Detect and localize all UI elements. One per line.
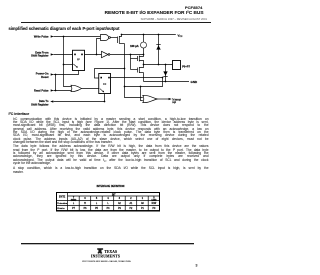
arrow power-on reset bbox=[51, 73, 54, 75]
svg-text:5: 5 bbox=[96, 198, 98, 200]
junction dot FF1 clock bbox=[63, 64, 65, 66]
wire INT gate lower input bbox=[141, 87, 143, 101]
svg-text:P3: P3 bbox=[118, 208, 122, 210]
wire NMOS2 gate stub bbox=[131, 69, 138, 71]
gate U4 OR1 body bbox=[71, 85, 82, 92]
svg-text:(LSB): (LSB) bbox=[151, 199, 156, 201]
wire data from shift register bbox=[54, 54, 73, 56]
diode D2 cathode bar bbox=[163, 75, 167, 77]
gate U2 NAND body bbox=[101, 35, 109, 41]
wire read pulse bbox=[54, 90, 72, 92]
junction dot write branch bbox=[63, 36, 65, 38]
junction dot FF2 Q bend bbox=[162, 77, 164, 79]
wire POR branch down to read line bbox=[55, 75, 57, 91]
junction dot VCC PMOS bbox=[121, 34, 123, 36]
svg-text:BIT: BIT bbox=[112, 194, 116, 196]
svg-text:P4: P4 bbox=[107, 208, 111, 210]
diode D1 triangle bbox=[156, 45, 160, 49]
wire INT gate output bbox=[157, 98, 169, 100]
wire diode D2 vertical bbox=[165, 65, 167, 82]
transistor Q2 NMOS1 channel bbox=[138, 56, 140, 62]
diode D1 cathode bar bbox=[156, 44, 160, 46]
svg-text:1: 1 bbox=[142, 198, 144, 200]
clock mark FF2 bbox=[100, 89, 104, 92]
FF2 Q terminal mark bbox=[108, 77, 110, 79]
wire 100uA branch bbox=[143, 35, 145, 55]
svg-text:A0: A0 bbox=[141, 202, 145, 205]
svg-text:(MSB): (MSB) bbox=[71, 199, 77, 201]
svg-text:TEXAS: TEXAS bbox=[105, 250, 118, 254]
transistor Q3 NMOS2 gate bar bbox=[137, 68, 139, 73]
junction dot current source node bbox=[143, 54, 145, 56]
junction dot pad diode1 bbox=[158, 64, 160, 66]
transistor Q1 PMOS source lead bbox=[119, 35, 121, 37]
FF1 Q terminal mark bbox=[81, 54, 83, 56]
wire FF2 Q loop bbox=[111, 78, 163, 87]
wire PMOS drain long vertical to INT gate bbox=[125, 44, 143, 98]
transistor Q3 NMOS2 channel bbox=[138, 67, 140, 73]
junction dot VCC diode1 bbox=[158, 34, 160, 36]
svg-text:H: H bbox=[84, 203, 86, 205]
svg-text:A1: A1 bbox=[129, 202, 133, 205]
wire NAND input B riser bbox=[97, 39, 101, 55]
wire data to shift register bbox=[54, 101, 105, 103]
svg-text:L: L bbox=[73, 203, 75, 205]
transistor Q1 PMOS gate bar bbox=[117, 37, 119, 44]
wire FF1 clock lead bbox=[64, 64, 73, 66]
junction dot GND diode2 bbox=[165, 81, 167, 83]
svg-text:P0: P0 bbox=[152, 208, 156, 210]
svg-text:I/O data bus: I/O data bus bbox=[57, 207, 64, 210]
footer rule bbox=[21, 243, 194, 244]
junction dot gate bus bbox=[130, 54, 132, 56]
junction dot data-to-SR bbox=[104, 101, 106, 103]
gate U3 inverter triangle bbox=[102, 51, 109, 57]
junction dot VCC 100uA bbox=[143, 34, 145, 36]
table outer border bbox=[57, 193, 160, 211]
transistor Q2 NMOS1 drain lead bbox=[139, 55, 143, 57]
wire write pulse bbox=[54, 36, 101, 38]
wire diode D1 vertical bbox=[158, 35, 160, 65]
wire VCC rail bbox=[122, 34, 176, 36]
wire NMOS2 source to GND bbox=[143, 73, 145, 82]
FF1 D terminal mark bbox=[74, 54, 76, 56]
wire GND rail bbox=[144, 81, 190, 83]
clock mark FF1 bbox=[73, 64, 77, 67]
wire inverter output bbox=[110, 54, 144, 56]
transistor Q2 NMOS1 gate bar bbox=[137, 56, 139, 61]
wire OR1 output to FF2 clock bbox=[82, 88, 100, 90]
header rule bbox=[21, 22, 211, 23]
io pad box P0-P7 bbox=[173, 61, 181, 70]
wire NAND output to PMOS gate bbox=[111, 37, 118, 39]
wire NMOS1 gate stub bbox=[131, 58, 138, 60]
wire write-pulse branch vertical to OR1 bbox=[64, 37, 72, 87]
wire FF2 bottom pin bbox=[104, 94, 106, 102]
flip-flop FF1 box bbox=[73, 50, 85, 70]
FF2 D terminal mark bbox=[100, 77, 102, 79]
svg-text:L: L bbox=[107, 203, 109, 205]
junction dot pad diode2 bbox=[165, 64, 167, 66]
transistor Q3 NMOS2 source lead bbox=[139, 72, 143, 74]
svg-text:INSTRUMENTS: INSTRUMENTS bbox=[91, 254, 120, 258]
svg-text:3: 3 bbox=[119, 198, 121, 200]
transistor Q3 NMOS2 drain lead bbox=[139, 65, 143, 68]
section heading bbox=[9, 26, 120, 31]
svg-text:6: 6 bbox=[84, 198, 86, 200]
junction dot read line bbox=[55, 90, 57, 92]
svg-text:3: 3 bbox=[196, 264, 198, 268]
svg-text:BYTE: BYTE bbox=[59, 197, 66, 199]
flip-flop FF2 box bbox=[99, 74, 111, 94]
gate U5 INT OR body bbox=[143, 95, 157, 102]
table column lines bbox=[67, 193, 69, 211]
svg-text:P7: P7 bbox=[72, 208, 76, 210]
wire FF1 Q output bbox=[85, 54, 102, 56]
svg-text:I²C slave address: I²C slave address bbox=[57, 202, 67, 205]
transistor Q2 NMOS1 source lead bbox=[139, 61, 143, 65]
svg-text:P2: P2 bbox=[129, 208, 133, 210]
arrow write pulse bbox=[51, 35, 54, 37]
clock mark arrowhead FF2 bbox=[102, 91, 104, 93]
arrow to interrupt logic bbox=[169, 98, 172, 100]
wire NMOS gate bus vertical bbox=[130, 55, 132, 70]
svg-text:L: L bbox=[96, 203, 98, 205]
junction dot bracket tee bbox=[124, 86, 126, 88]
current source I1 circle bbox=[141, 42, 147, 48]
clock mark arrowhead FF1 bbox=[76, 66, 78, 68]
arrow data from shift register bbox=[51, 53, 54, 55]
junction dot INT lower tee bbox=[140, 86, 142, 88]
wire pad node bbox=[144, 64, 173, 66]
gate U2 NAND bubble bbox=[109, 37, 111, 39]
junction dot NAND riser bbox=[96, 54, 98, 56]
wire FF2 D input bbox=[95, 69, 125, 79]
arrow data to shift register (points left) bbox=[50, 100, 53, 102]
svg-text:P1: P1 bbox=[141, 208, 145, 210]
transistor Q1 PMOS drain lead bbox=[119, 43, 124, 45]
diode D2 triangle bbox=[163, 71, 167, 75]
svg-text:2: 2 bbox=[130, 198, 132, 200]
svg-text:POST OFFICE BOX 655303 • DALLA: POST OFFICE BOX 655303 • DALLAS, TEXAS 7… bbox=[82, 260, 131, 263]
table row lines bbox=[68, 195, 160, 197]
svg-text:R/W: R/W bbox=[152, 203, 157, 205]
svg-text:P6: P6 bbox=[84, 208, 88, 210]
arrow read pulse bbox=[51, 89, 54, 91]
wire power-on reset bbox=[54, 71, 79, 75]
junction dot pad node NMOS bbox=[143, 64, 145, 66]
transistor Q1 PMOS channel bbox=[118, 36, 120, 44]
svg-text:A2: A2 bbox=[118, 202, 122, 205]
svg-text:4: 4 bbox=[107, 197, 109, 200]
junction dot POR branch bbox=[55, 74, 57, 76]
gate U3 inverter bubble bbox=[108, 54, 110, 56]
TI logo emblem bbox=[97, 248, 103, 254]
svg-text:P5: P5 bbox=[95, 208, 99, 210]
junction dot FF2 D tee bbox=[124, 68, 126, 70]
